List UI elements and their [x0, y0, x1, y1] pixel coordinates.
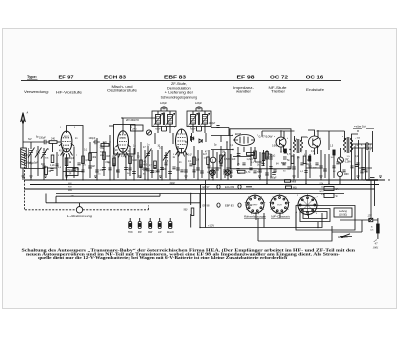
svg-text:750pF: 750pF [155, 129, 161, 131]
svg-text:ZF=460kHz: ZF=460kHz [125, 119, 140, 122]
header label Type: [27, 75, 38, 79]
loudspeaker jack [352, 143, 372, 151]
svg-text:EF 97: EF 97 [203, 185, 210, 189]
svg-text:9: 9 [74, 127, 75, 129]
svg-text:Druckt: Druckt [167, 231, 174, 234]
svg-text:1961: 1961 [373, 246, 380, 250]
svg-text:110pF: 110pF [195, 102, 202, 105]
battery terminal [340, 216, 378, 222]
svg-text:9: 9 [131, 127, 132, 129]
antenna [21, 111, 29, 149]
svg-text:+12V: +12V [208, 223, 214, 227]
IF transformer 2 [187, 111, 211, 133]
svg-text:3: 3 [58, 155, 59, 157]
svg-text:1M2: 1M2 [132, 159, 137, 162]
svg-text:7: 7 [317, 197, 318, 199]
svg-text:k: k [287, 138, 288, 140]
variable capacitor circle osc [146, 130, 151, 135]
tube pin stubs EF97 [61, 152, 73, 158]
capacitor 100pF [89, 137, 100, 144]
svg-text:EF 98: EF 98 [203, 203, 210, 207]
resistor 1k horizontal [101, 142, 109, 146]
oscillator verticals [114, 133, 178, 180]
svg-text:MΩ: MΩ [293, 188, 297, 190]
trimmer capacitor C1 [26, 142, 35, 165]
svg-text:3: 3 [296, 212, 297, 214]
tube EF97 [59, 129, 74, 152]
bus line 2 [30, 184, 379, 186]
wire ECH83 top filter [109, 118, 157, 129]
label NF-Chassis [271, 216, 291, 219]
right section verticals [294, 131, 373, 184]
trimmer capacitor C3 [41, 148, 48, 166]
wire mid horizontals [24, 153, 372, 172]
svg-text:wandler: wandler [236, 90, 252, 94]
wire antenna input [23, 142, 36, 180]
capacitor 110pF 2 [195, 102, 202, 111]
svg-text:Oszillatorstufe: Oszillatorstufe [107, 89, 137, 93]
bus line 4 [56, 193, 344, 195]
svg-text:NF-Chassis: NF-Chassis [271, 216, 291, 219]
heater oval row1 b [238, 185, 241, 189]
svg-text:1: 1 [293, 154, 294, 156]
label Drehko [338, 234, 350, 239]
svg-text:EF98: EF98 [235, 133, 242, 136]
oscillator trimmer C4 [144, 149, 152, 164]
heater label row 2 [203, 203, 235, 207]
boxed label 750pF [66, 168, 78, 176]
dashed control shaft [25, 206, 149, 210]
svg-text:-9V: -9V [345, 159, 349, 161]
svg-text:=Pkt: =Pkt [132, 127, 137, 130]
fuse vertical right black [370, 218, 379, 239]
svg-text:ECH 83: ECH 83 [104, 74, 127, 79]
svg-text:9pF: 9pF [41, 163, 46, 166]
svg-text:0,47/10W: 0,47/10W [259, 135, 274, 138]
bus line 3 [24, 188, 375, 190]
band filter resistor R3 [82, 156, 89, 164]
tube EBF83 [176, 129, 188, 153]
capacitor C6 [268, 153, 273, 159]
svg-text:e: e [274, 136, 275, 138]
socket 3 cross [300, 197, 316, 213]
output wire box [300, 209, 330, 222]
svg-text:1M: 1M [92, 166, 95, 168]
pushbutton Druckt [167, 218, 174, 234]
svg-text:9: 9 [190, 127, 191, 129]
diode D1 [191, 137, 194, 141]
fuse box 1 [324, 187, 339, 192]
resistor R15 [45, 167, 52, 175]
bus thick mark [366, 179, 378, 181]
svg-text:A: A [26, 111, 29, 115]
wire demod to EF98 [211, 136, 233, 150]
capacitor 110pF EF98 top [209, 122, 220, 128]
tube ECH83 [116, 129, 131, 154]
label Roehrenfassungen [244, 216, 267, 219]
svg-text:k: k [320, 138, 321, 140]
svg-text:0,5M: 0,5M [224, 158, 229, 161]
fuse box 2 [324, 194, 338, 199]
oscillator resistor R8 [140, 160, 148, 168]
svg-text:4: 4 [304, 154, 305, 156]
column text ZF-Stufe Demodulation Lieferung Schwundregelspannung [161, 82, 198, 99]
svg-text:ECH: ECH [121, 137, 126, 139]
ECH83 shield box [114, 125, 136, 155]
oscillator resistor R9 [149, 161, 156, 169]
svg-text:(19,5Ω): (19,5Ω) [339, 213, 347, 216]
volume pot [219, 155, 229, 164]
svg-text:150pF: 150pF [39, 136, 46, 139]
pushbutton MW [148, 218, 153, 234]
dial lamp 1 [210, 170, 216, 176]
svg-text:L: L [212, 158, 214, 162]
svg-text:Type:: Type: [27, 75, 37, 79]
electrolytic C9 [284, 149, 286, 153]
column text Impedanzwandler [233, 86, 254, 94]
output outer box [296, 206, 355, 231]
label GW KW MW coil [100, 148, 105, 157]
resistor 240 [49, 138, 61, 144]
svg-text:1: 1 [60, 127, 61, 129]
tube socket 1 [245, 194, 266, 214]
svg-text:480: 480 [143, 164, 148, 167]
svg-text:8: 8 [132, 156, 133, 158]
svg-text:110pF: 110pF [209, 122, 216, 125]
svg-text:7: 7 [257, 135, 258, 137]
NF shield box [230, 129, 291, 169]
svg-text:LS: LS [368, 145, 371, 148]
Leitung box [334, 208, 352, 217]
tube socket 3 [297, 194, 319, 216]
bottom wire line [258, 218, 352, 241]
svg-text:7P: 7P [69, 174, 72, 176]
demodulator verticals [186, 133, 231, 180]
svg-text:1,2k: 1,2k [50, 164, 55, 167]
element M68 [338, 172, 350, 177]
svg-text:1A: 1A [336, 188, 339, 191]
svg-text:NV: NV [28, 137, 32, 141]
wire plus top right [353, 126, 374, 128]
oscillator box [131, 125, 144, 131]
svg-text:2: 2 [297, 195, 298, 197]
right edge verticals [332, 180, 375, 232]
wire EF97 anode top [67, 126, 84, 136]
tube pin stubs ECH83 [116, 152, 129, 158]
svg-text:1: 1 [113, 127, 114, 129]
ground symbols row [30, 176, 383, 177]
svg-text:EF 97: EF 97 [59, 74, 75, 79]
svg-text:Treiber: Treiber [271, 90, 286, 94]
extra labels band [36, 137, 363, 173]
resistor 1,2k EF98 [247, 153, 255, 161]
diode D2 [199, 139, 202, 143]
svg-text:0,5M: 0,5M [272, 146, 277, 148]
wire OC72 top [262, 131, 295, 136]
svg-text:100pF: 100pF [89, 137, 96, 140]
svg-text:Verwendung:: Verwendung: [24, 90, 49, 94]
svg-text:3: 3 [173, 154, 174, 156]
svg-text:M68: M68 [292, 181, 297, 183]
electrolytic C7 [309, 156, 311, 161]
svg-text:Röhrenfassungen: Röhrenfassungen [244, 216, 267, 219]
svg-text:47kΩ: 47kΩ [270, 156, 276, 158]
tube socket 2 [269, 194, 290, 214]
svg-text:1M: 1M [106, 155, 109, 158]
dashed left border [24, 153, 26, 210]
tube EF98 [233, 133, 255, 145]
ground tick antenna [22, 176, 25, 177]
svg-text:M68: M68 [344, 174, 349, 176]
svg-text:300pF: 300pF [270, 177, 277, 179]
demod resistor R10 [188, 157, 195, 165]
labels 27k column [320, 183, 325, 196]
svg-text:6: 6 [316, 213, 317, 215]
pin digits group [58, 127, 356, 158]
IF transformer 1 [152, 111, 176, 133]
resistor R5 [103, 152, 110, 160]
svg-text:7: 7 [191, 154, 192, 156]
capacitor 300pF [270, 173, 277, 180]
wire IFT2 to EF98 [211, 128, 229, 137]
svg-text:EF 98: EF 98 [237, 74, 256, 79]
heater oval row2 b [238, 203, 241, 207]
svg-text:=+über Sch: =+über Sch [354, 126, 367, 128]
bus labels SW KW MW [68, 183, 74, 198]
pushbutton TON [128, 218, 133, 234]
antenna coil L1 [21, 148, 29, 168]
svg-text:EBF 83: EBF 83 [225, 203, 234, 207]
resistor R2 vertical [50, 155, 55, 167]
IFT2 lower verticals [197, 127, 202, 132]
NTC element [338, 157, 352, 164]
band filter resistor R4 [89, 153, 97, 161]
resistor above sockets [238, 170, 252, 174]
pushbutton KW [138, 218, 143, 234]
column text Misch- und Oszillatorstufe [107, 85, 137, 93]
svg-text:HF-Vorstufe: HF-Vorstufe [56, 90, 82, 94]
band filter verticals [83, 135, 110, 180]
heater label row 1 [203, 185, 235, 189]
IFT1 lower verticals [162, 127, 167, 132]
capacitor 110pF 1 [160, 102, 167, 111]
svg-text:1kΩ: 1kΩ [103, 142, 107, 144]
svg-text:EBF 83: EBF 83 [164, 74, 187, 79]
svg-text:1: 1 [174, 127, 175, 129]
svg-text:1nF: 1nF [232, 159, 237, 161]
tube pin stubs EBF83 [176, 151, 188, 157]
dial lamp 2 [225, 170, 231, 176]
svg-text:110pF: 110pF [160, 102, 167, 105]
svg-text:30pF: 30pF [29, 162, 35, 165]
svg-text:ECH: ECH [277, 204, 282, 206]
transistor OC16 [308, 130, 321, 154]
svg-text:OC 16: OC 16 [306, 74, 325, 79]
capacitor below EF97 [73, 168, 80, 171]
svg-text:NTC: NTC [320, 191, 325, 193]
heater oval row2 a [217, 203, 220, 207]
demod resistor R11 [203, 153, 209, 165]
svg-text:TON: TON [128, 232, 133, 234]
capacitor 1nF EF98 [232, 154, 241, 161]
svg-text:7: 7 [76, 155, 77, 157]
header rule [21, 80, 341, 82]
label 160 [303, 156, 311, 164]
dial lamp L [210, 157, 216, 163]
svg-text:1: 1 [232, 135, 233, 137]
svg-text:ECH 83: ECH 83 [225, 185, 235, 189]
output transformer [343, 131, 358, 153]
svg-text:L-Abstimmung: L-Abstimmung [67, 214, 93, 218]
oscillator trimmer C5 [163, 151, 170, 161]
oscillator resistor R7 [129, 156, 138, 164]
oscillator resistor R6 [105, 158, 115, 166]
trimmer capacitor C2 [34, 146, 42, 165]
extra labels band 2 [45, 156, 350, 176]
capacitor 50uF [281, 157, 287, 165]
wire tuner verticals left [31, 144, 57, 181]
resistor 47k EF98 [266, 152, 276, 160]
pushbutton LW [158, 218, 162, 234]
svg-text:EF97: EF97 [64, 136, 70, 138]
svg-text:quelle dient nur die 12-V-Wage: quelle dient nur die 12-V-Wagenbatterie;… [38, 255, 288, 260]
svg-text:+ Lieferung der: + Lieferung der [165, 91, 195, 95]
wire socket drops [256, 212, 309, 228]
resistor R12 [250, 151, 256, 159]
resistor below EF97 [65, 158, 72, 166]
resistor M68 top [285, 180, 297, 184]
resistor 560 [184, 194, 194, 228]
wire 12V drop [200, 194, 318, 228]
transistor OC72 [276, 131, 286, 152]
wire OC16 collector [317, 131, 345, 150]
svg-text:Schwundregelspannung: Schwundregelspannung [161, 95, 198, 99]
svg-text:2M: 2M [222, 152, 225, 154]
svg-text:0,28A: 0,28A [345, 161, 351, 164]
resistor R14 [287, 156, 294, 164]
svg-text:240: 240 [51, 138, 56, 141]
wire heater column [205, 180, 207, 228]
svg-text:b: b [307, 137, 308, 139]
capacitor 150pF [36, 136, 50, 144]
svg-text:50µF: 50µF [306, 164, 312, 166]
EF98 section verticals [238, 147, 271, 184]
svg-text:1M: 1M [196, 160, 199, 162]
page reference [373, 238, 380, 250]
svg-text:62pF: 62pF [23, 154, 29, 157]
label M ohm [286, 186, 297, 190]
heater oval row1 a [217, 185, 220, 189]
wire EF97 cathode down [63, 147, 74, 181]
plus 12V line [200, 213, 322, 228]
svg-text:OC 72: OC 72 [270, 74, 289, 79]
capacitor ticks group [88, 165, 365, 175]
resistor R13 [262, 153, 269, 161]
svg-text:4M: 4M [108, 163, 111, 165]
svg-text:380pF: 380pF [68, 157, 75, 160]
column text NF-Stufe Treiber [269, 86, 287, 94]
socket 3 pin labels [296, 195, 318, 215]
driver transformer [293, 136, 307, 153]
heater wires [201, 184, 253, 208]
svg-text:1,2kΩ: 1,2kΩ [247, 159, 253, 161]
capacitor ticks group 2 [42, 162, 367, 173]
ground bus line 1 [24, 179, 385, 181]
tuning knob circle [76, 207, 82, 213]
minus dash [370, 177, 375, 179]
electrolytic C8 [333, 150, 335, 155]
wire 9V rails [46, 194, 201, 207]
svg-text:Endstufe: Endstufe [306, 88, 324, 92]
